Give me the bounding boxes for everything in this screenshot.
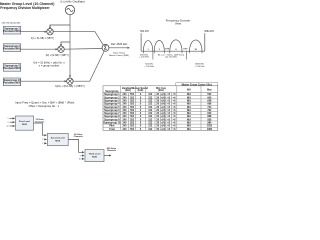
svg-text:f(1) + f(1-SB) = (SBTY): f(1) + f(1-SB) = (SBTY) bbox=[31, 38, 54, 40]
svg-text:N/A: N/A bbox=[187, 112, 191, 115]
svg-text:Supergroup 8: Supergroup 8 bbox=[104, 115, 120, 118]
wire F1 to F2 bbox=[34, 123, 47, 135]
wire SG10 to M3 bbox=[21, 80, 67, 82]
bracket line right bbox=[186, 51, 188, 59]
label span formula bbox=[158, 53, 184, 58]
svg-text:2568 kHz: 2568 kHz bbox=[195, 63, 204, 65]
label 600 voice channels bbox=[107, 148, 117, 152]
wire M3 to summer bbox=[73, 51, 104, 81]
wire F3 output bbox=[104, 155, 111, 157]
table header text bbox=[105, 87, 212, 93]
mixer M1 bbox=[47, 29, 53, 35]
svg-text:MUX: MUX bbox=[22, 124, 27, 126]
svg-text:Supergroup 3: Supergroup 3 bbox=[104, 99, 120, 102]
frequency axis bbox=[141, 50, 205, 52]
svg-text:10: 10 bbox=[79, 159, 81, 161]
label 12 voice channels bbox=[35, 119, 45, 123]
svg-text:552: 552 bbox=[130, 112, 135, 115]
svg-text:Third Level: Third Level bbox=[89, 154, 101, 156]
supergroup 2 passband MUX box bbox=[3, 44, 21, 52]
svg-text:N/A: N/A bbox=[187, 122, 191, 125]
input labels bbox=[7, 118, 9, 128]
wire SG1 to M1 bbox=[21, 31, 47, 33]
svg-text:552: 552 bbox=[130, 93, 135, 96]
supergroup 1 passband MUX box bbox=[3, 26, 21, 34]
svg-text:MUX: MUX bbox=[92, 157, 97, 159]
svg-text:1080: 1080 bbox=[207, 128, 213, 131]
label 60 voice channels bbox=[74, 134, 84, 138]
svg-text:+ 120 kHz: + 120 kHz bbox=[139, 57, 149, 59]
svg-text:312: 312 bbox=[148, 112, 153, 115]
svg-text:552: 552 bbox=[130, 99, 135, 102]
summer U2 bbox=[102, 44, 109, 51]
left bound line bbox=[140, 33, 142, 51]
svg-text:+(4): +(4) bbox=[161, 125, 166, 128]
svg-text:N/A: N/A bbox=[187, 118, 191, 121]
svg-text:2: 2 bbox=[80, 155, 81, 157]
svg-text:(C) 120 kHz: (C) 120 kHz bbox=[165, 57, 177, 59]
supergroup 3 passband MUX box bbox=[3, 64, 21, 72]
svg-text:Supergroup 5: Supergroup 5 bbox=[104, 106, 120, 109]
svg-text:1032: 1032 bbox=[207, 125, 213, 128]
svg-text:Channels: Channels bbox=[74, 136, 84, 138]
label 2568 kHz lower bbox=[195, 63, 205, 68]
table body text bbox=[103, 93, 212, 131]
svg-text:Σ: Σ bbox=[104, 46, 107, 52]
svg-text:(kHz): (kHz) bbox=[125, 90, 131, 92]
input arrow F3 b bbox=[82, 155, 85, 157]
frequency domain plot title bbox=[166, 18, 191, 25]
svg-text:888: 888 bbox=[207, 115, 212, 118]
svg-text:+(4): +(4) bbox=[161, 122, 166, 125]
svg-text:240: 240 bbox=[123, 125, 128, 128]
svg-text:Input Freq = Quant × Osc × BW: Input Freq = Quant × Osc × BW + (BW) * (… bbox=[15, 101, 74, 105]
svg-text:Passband MUX: Passband MUX bbox=[3, 67, 21, 70]
svg-text:564 kHz: 564 kHz bbox=[140, 30, 150, 33]
dots between humps bbox=[183, 48, 187, 49]
svg-text:3084 kHz: 3084 kHz bbox=[204, 30, 215, 33]
svg-text:600: 600 bbox=[207, 96, 212, 99]
svg-text:N/A: N/A bbox=[187, 109, 191, 112]
svg-text:564 kHz: 564 kHz bbox=[145, 63, 153, 65]
svg-text:Lower Bound: Lower Bound bbox=[133, 88, 148, 90]
svg-text:N/A: N/A bbox=[187, 103, 191, 106]
channel hump 9 bbox=[170, 40, 182, 51]
svg-text:Master Group Level (10-Channel: Master Group Level (10-Channel) bbox=[0, 2, 54, 6]
first level MUX box bbox=[16, 116, 34, 130]
svg-text:240: 240 bbox=[123, 118, 128, 121]
svg-text:+(4): +(4) bbox=[161, 115, 166, 118]
input channel 12 arrow bbox=[10, 125, 15, 127]
svg-text:552: 552 bbox=[130, 96, 135, 99]
svg-text:+(4): +(4) bbox=[161, 128, 166, 131]
svg-text:N/A: N/A bbox=[187, 125, 191, 128]
svg-text:600 Voice: 600 Voice bbox=[107, 148, 117, 150]
svg-text:528 kHz: 528 kHz bbox=[140, 54, 148, 56]
svg-text:240: 240 bbox=[123, 109, 128, 112]
svg-text:f(10) + f(10-SB) = (SBTY): f(10) + f(10-SB) = (SBTY) bbox=[55, 84, 85, 88]
svg-text:Supergroup 6: Supergroup 6 bbox=[104, 109, 120, 112]
svg-text:312: 312 bbox=[148, 93, 153, 96]
svg-text:N/A: N/A bbox=[187, 106, 191, 109]
wire F2 to F3 bbox=[68, 140, 84, 153]
column lines bbox=[121, 86, 201, 131]
svg-text:n = group number: n = group number bbox=[39, 64, 60, 68]
svg-text:552: 552 bbox=[130, 122, 135, 125]
svg-text:312: 312 bbox=[148, 118, 153, 121]
svg-text:1: 1 bbox=[8, 118, 9, 120]
svg-text:312: 312 bbox=[148, 103, 153, 106]
svg-text:552: 552 bbox=[130, 103, 135, 106]
svg-text:5: 5 bbox=[42, 143, 43, 145]
svg-text:552: 552 bbox=[130, 118, 135, 121]
svg-text:Channels: Channels bbox=[107, 150, 117, 152]
svg-text:Ref: 2520 kHz: Ref: 2520 kHz bbox=[111, 42, 128, 46]
svg-text:Second Level: Second Level bbox=[51, 138, 65, 140]
svg-text:552: 552 bbox=[130, 109, 135, 112]
svg-text:648: 648 bbox=[207, 99, 212, 102]
wire branch to mixer M2 bbox=[61, 42, 70, 43]
svg-text:+ 120 kHz: + 120 kHz bbox=[144, 66, 154, 68]
svg-text:f(2) + f(2-SB) = (SBTY): f(2) + f(2-SB) = (SBTY) bbox=[46, 55, 69, 57]
svg-text:60 Voice: 60 Voice bbox=[74, 134, 83, 136]
axis ticks bbox=[143, 51, 202, 53]
svg-text:+(4): +(4) bbox=[161, 96, 166, 99]
wire M2 to summer bbox=[64, 48, 102, 51]
svg-text:+(4): +(4) bbox=[161, 103, 166, 106]
header separator bbox=[103, 92, 218, 94]
bracket line left bbox=[152, 51, 154, 59]
wire M1 to summer bbox=[53, 32, 104, 46]
svg-text:Supergroup 2: Supergroup 2 bbox=[104, 96, 120, 99]
svg-text:312: 312 bbox=[148, 99, 153, 102]
svg-text:Total: Total bbox=[109, 128, 115, 131]
svg-text:2: 2 bbox=[42, 139, 43, 141]
dots between humps bbox=[165, 48, 169, 49]
svg-text:MUX: MUX bbox=[55, 141, 60, 143]
svg-text:240: 240 bbox=[123, 112, 128, 115]
svg-text:312: 312 bbox=[148, 109, 153, 112]
svg-text:240: 240 bbox=[123, 106, 128, 109]
third level MUX box bbox=[85, 150, 104, 162]
svg-text:Supergroup 1: Supergroup 1 bbox=[104, 93, 120, 96]
svg-text:240: 240 bbox=[123, 103, 128, 106]
svg-text:312: 312 bbox=[148, 125, 153, 128]
input labels F2 bbox=[42, 139, 43, 145]
svg-text:Max: Max bbox=[207, 90, 212, 92]
svg-text:312: 312 bbox=[148, 122, 153, 125]
channel hump 2 bbox=[154, 41, 164, 52]
svg-text:552: 552 bbox=[130, 115, 135, 118]
svg-text:Passband MUX: Passband MUX bbox=[3, 30, 21, 33]
svg-text:Supergroup 10: Supergroup 10 bbox=[103, 122, 121, 125]
mixer M3 bbox=[67, 78, 73, 84]
formula note bbox=[33, 61, 65, 68]
right bound line bbox=[204, 33, 206, 51]
svg-text:312: 312 bbox=[148, 96, 153, 99]
channel hump 10 bbox=[190, 40, 203, 51]
svg-text:N/A: N/A bbox=[187, 128, 191, 131]
second level MUX box bbox=[47, 133, 68, 145]
svg-text:(f c) kHz Oscillator: (f c) kHz Oscillator bbox=[60, 0, 85, 4]
svg-text:View: View bbox=[175, 21, 182, 25]
table bbox=[103, 86, 218, 131]
svg-text:N/A: N/A bbox=[187, 115, 191, 118]
supergroup 10 passband MUX box bbox=[3, 78, 21, 86]
svg-text:+ 120 kHz: + 120 kHz bbox=[195, 66, 205, 68]
svg-text:312: 312 bbox=[148, 128, 153, 131]
svg-text:N/A: N/A bbox=[187, 93, 191, 96]
svg-text:240: 240 bbox=[123, 93, 128, 96]
svg-text:N/A: N/A bbox=[187, 99, 191, 102]
svg-text:+(4): +(4) bbox=[161, 109, 166, 112]
svg-text:Pilot: Pilot bbox=[109, 125, 114, 128]
mixer M2 bbox=[58, 46, 64, 52]
oscillator U1 bbox=[65, 5, 74, 14]
label 528 kHz bbox=[139, 54, 149, 58]
svg-text:12: 12 bbox=[7, 126, 9, 128]
svg-text:312: 312 bbox=[148, 115, 153, 118]
svg-text:552: 552 bbox=[130, 125, 135, 128]
svg-text:+(4): +(4) bbox=[161, 112, 166, 115]
svg-text:(kHz): (kHz) bbox=[158, 90, 164, 92]
svg-text:Passband MUX: Passband MUX bbox=[3, 47, 21, 50]
svg-text:552: 552 bbox=[207, 93, 212, 96]
svg-text:2: 2 bbox=[8, 122, 9, 124]
svg-text:840: 840 bbox=[207, 112, 212, 115]
wire summer output bbox=[109, 47, 130, 49]
input arrow F2 c bbox=[44, 142, 47, 144]
input arrow F3 c bbox=[82, 158, 85, 160]
row lines bbox=[103, 96, 218, 128]
svg-text:+(4): +(4) bbox=[161, 118, 166, 121]
svg-text:N/A: N/A bbox=[187, 96, 191, 99]
svg-text:240: 240 bbox=[123, 128, 128, 131]
svg-text:Supergroup 4: Supergroup 4 bbox=[104, 103, 120, 106]
svg-text:552: 552 bbox=[130, 128, 135, 131]
svg-text:312: 312 bbox=[148, 106, 153, 109]
svg-text:12 Voice: 12 Voice bbox=[36, 119, 45, 121]
svg-text:Min Freq: Min Freq bbox=[156, 88, 166, 90]
svg-text:936: 936 bbox=[207, 118, 212, 121]
input labels F3 bbox=[79, 155, 81, 160]
svg-text:696: 696 bbox=[207, 103, 212, 106]
svg-text:Passband MUX: Passband MUX bbox=[3, 82, 21, 85]
wire branch to mixer M1 bbox=[50, 25, 70, 26]
svg-text:744: 744 bbox=[207, 106, 212, 109]
svg-text:Frequency Division Multiplexer: Frequency Division Multiplexer bbox=[0, 6, 50, 10]
table caption box bbox=[176, 83, 218, 87]
channel hump 1 bbox=[143, 41, 152, 52]
input channel 1 arrow bbox=[10, 117, 15, 119]
svg-text:+(4): +(4) bbox=[161, 99, 166, 102]
wire SG2 to M2 bbox=[21, 48, 58, 50]
svg-text:240: 240 bbox=[123, 122, 128, 125]
label 564 kHz lower bbox=[144, 63, 154, 68]
wire oscillator bus bbox=[69, 15, 71, 78]
svg-text:552: 552 bbox=[130, 106, 135, 109]
input channel 2 arrow bbox=[10, 121, 15, 123]
title bbox=[0, 2, 54, 10]
svg-text:Supergroup 7: Supergroup 7 bbox=[104, 112, 120, 115]
svg-text:984: 984 bbox=[207, 122, 212, 125]
svg-text:Supergroup 9: Supergroup 9 bbox=[104, 118, 120, 121]
svg-text:792: 792 bbox=[207, 109, 212, 112]
label master carrier bbox=[109, 51, 129, 57]
svg-text:(kHz): (kHz) bbox=[138, 90, 144, 92]
input arrow F2 b bbox=[44, 138, 47, 140]
svg-text:f(n) = 10 (kHz) + pilot No. n: f(n) = 10 (kHz) + pilot No. n bbox=[33, 61, 65, 65]
svg-text:Offset = Supergroup No. - 1: Offset = Supergroup No. - 1 bbox=[29, 105, 60, 108]
svg-text:240: 240 bbox=[123, 96, 128, 99]
svg-text:+(4): +(4) bbox=[161, 106, 166, 109]
note input frequency plan bbox=[15, 101, 74, 108]
svg-text:240: 240 bbox=[123, 99, 128, 102]
svg-text:240: 240 bbox=[123, 115, 128, 118]
svg-text:+(4): +(4) bbox=[161, 93, 166, 96]
